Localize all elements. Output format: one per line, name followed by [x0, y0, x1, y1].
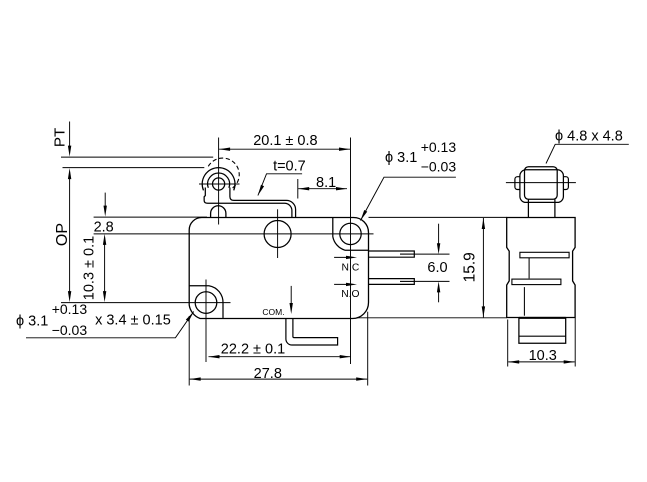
side view: lever stem — [528, 199, 555, 217]
plunger dome on body top — [211, 206, 226, 218]
dimension 6.0 arrows — [438, 224, 440, 248]
svg-text:−0.03: −0.03 — [421, 159, 457, 175]
svg-text:ϕ 3.1: ϕ 3.1 — [16, 313, 48, 329]
dimension 15.9 — [482, 218, 484, 317]
side view: slot upper — [520, 252, 569, 257]
terminal COM (L-shaped) — [286, 319, 338, 346]
centerline horizontal through bottom-left hole — [61, 302, 231, 304]
svg-text:10.3 ± 0.1: 10.3 ± 0.1 — [82, 236, 98, 300]
dimension 20.1 +/- 0.8 — [219, 148, 350, 150]
plunger hole circle — [264, 221, 291, 248]
wire: extension line body right (27.8) — [367, 312, 369, 386]
terminal N.C — [369, 251, 415, 257]
svg-text:OP: OP — [54, 223, 71, 246]
side view: rib line upper — [528, 258, 530, 279]
side view: body outline — [507, 218, 575, 318]
leader phi 3.1 top right — [361, 177, 456, 220]
side view: roller — [525, 167, 558, 200]
svg-text:COM.: COM. — [262, 307, 284, 317]
svg-text:PT: PT — [52, 128, 69, 147]
roller outer circle — [202, 168, 235, 191]
extension line body bottom to side view (15.9) — [357, 317, 507, 319]
svg-text:10.3: 10.3 — [529, 348, 557, 364]
side view: axle tab left — [515, 177, 520, 190]
side view: rib line lower — [523, 287, 525, 316]
svg-text:20.1 ± 0.8: 20.1 ± 0.8 — [253, 133, 317, 149]
leader phi 3.1 x 3.4 bottom left — [26, 312, 194, 338]
dimension 10.3 (side view) extension lines — [507, 320, 509, 367]
svg-text:2.8: 2.8 — [94, 220, 114, 236]
svg-text:t=0.7: t=0.7 — [273, 158, 306, 174]
side view: axle tab right — [563, 177, 568, 190]
dimension 27.8 — [190, 378, 368, 380]
boss around bottom-left hole — [189, 286, 223, 318]
svg-text:+0.13: +0.13 — [52, 301, 88, 317]
roller axle hole — [213, 178, 225, 190]
svg-text:8.1: 8.1 — [316, 175, 336, 191]
leader phi 4.8 x 4.8 — [546, 144, 629, 163]
OP dimension line — [69, 172, 71, 297]
operating position line — [63, 167, 205, 169]
long horizontal centerline through holes — [94, 233, 374, 235]
side view: lever fork behind roller — [520, 170, 564, 203]
free position line — [61, 156, 213, 158]
svg-text:27.8: 27.8 — [254, 366, 282, 382]
centerline horizontal through roller — [199, 183, 240, 185]
svg-text:N.O: N.O — [341, 289, 359, 300]
dimension 22.2 +/- 0.1 — [209, 356, 351, 358]
dimension 2.8 upper extension (body top) — [94, 216, 207, 218]
svg-text:22.2 ± 0.1: 22.2 ± 0.1 — [221, 342, 285, 358]
terminal N.O — [369, 279, 415, 285]
side view: bottom foot — [519, 318, 566, 344]
centerline vertical through plunger hole — [277, 209, 279, 258]
svg-text:−0.03: −0.03 — [52, 322, 88, 338]
dimension 10.3 (side view) — [508, 361, 575, 363]
extension line body top to side view (15.9) — [369, 216, 507, 218]
dimension 10.3 +/- 0.1 — [104, 238, 106, 299]
switch body outline (front view) — [189, 218, 368, 319]
roller inner rim circle — [208, 173, 230, 188]
dimension 8.1 — [298, 188, 347, 190]
centerline vertical through bottom-left hole — [205, 280, 207, 363]
leader t=0.7 — [258, 174, 302, 196]
dimension 2.8 arrow above — [104, 193, 106, 211]
centerline vertical through roller — [218, 138, 220, 225]
dashed circle (roller free position) — [208, 158, 239, 189]
mounting hole bottom-left — [195, 292, 217, 314]
svg-text:N.C: N.C — [342, 263, 360, 274]
side view: slot lower — [512, 279, 561, 285]
side view: axle centerline — [506, 182, 576, 184]
svg-text:15.9: 15.9 — [462, 252, 479, 282]
svg-text:ϕ 3.1: ϕ 3.1 — [385, 150, 417, 166]
svg-text:x 3.4 ± 0.15: x 3.4 ± 0.15 — [95, 313, 171, 329]
dimension 6.0 extension lines — [414, 253, 449, 255]
N.O arrow — [334, 283, 351, 285]
boss around top-right hole — [333, 218, 369, 251]
mounting hole top-right — [340, 223, 361, 244]
PT arrow — [69, 122, 71, 151]
svg-text:ϕ 4.8 x 4.8: ϕ 4.8 x 4.8 — [555, 129, 623, 145]
N.C arrow — [334, 256, 351, 258]
svg-text:6.0: 6.0 — [427, 260, 447, 276]
COM down arrow — [290, 286, 292, 308]
svg-text:+0.13: +0.13 — [421, 139, 457, 155]
roller lever strip — [204, 188, 292, 218]
centerline vertical through top-right hole — [350, 138, 352, 365]
wire: extension line body left (27.8) — [188, 316, 190, 386]
